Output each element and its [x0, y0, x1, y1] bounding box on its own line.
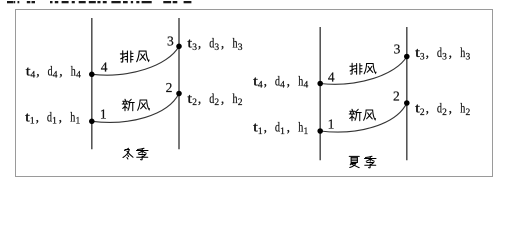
- summer: state point 4: [317, 81, 323, 87]
- svg-text:4: 4: [280, 81, 285, 91]
- svg-text:,: ,: [221, 36, 224, 51]
- svg-text:2: 2: [166, 80, 173, 95]
- svg-text:3: 3: [394, 41, 401, 56]
- svg-text:2: 2: [393, 88, 400, 103]
- svg-text:2: 2: [466, 108, 471, 118]
- svg-text:,: ,: [426, 45, 429, 60]
- svg-text:,: ,: [426, 101, 429, 116]
- svg-text:3: 3: [238, 43, 243, 53]
- svg-text:1: 1: [76, 117, 81, 127]
- svg-text:4: 4: [101, 60, 108, 75]
- summer: fresh air text 新风: [349, 109, 375, 121]
- summer: state point 1: [317, 128, 323, 134]
- svg-text:4: 4: [258, 81, 263, 91]
- svg-text:2: 2: [442, 108, 447, 118]
- svg-text:,: ,: [449, 101, 452, 116]
- svg-text:2: 2: [420, 108, 425, 118]
- svg-text:3: 3: [466, 52, 471, 62]
- winter: exhaust air text 排风: [120, 51, 149, 62]
- svg-text:3: 3: [214, 43, 219, 53]
- svg-text:,: ,: [198, 36, 201, 51]
- winter: state point 4: [89, 72, 95, 78]
- svg-text:,: ,: [59, 109, 62, 124]
- svg-text:2: 2: [238, 98, 243, 108]
- svg-text:,: ,: [36, 109, 39, 124]
- summer: state point 3: [404, 54, 410, 60]
- summer: label t2, d2, h2: [415, 101, 471, 118]
- svg-text:2: 2: [192, 98, 197, 108]
- svg-text:3: 3: [167, 33, 174, 48]
- winter: state point 1: [89, 119, 95, 125]
- svg-text:4: 4: [328, 70, 335, 85]
- summer: label t3, d3, h3: [415, 45, 471, 62]
- svg-text:1: 1: [52, 117, 57, 127]
- svg-text:,: ,: [287, 73, 290, 88]
- svg-text:2: 2: [214, 98, 219, 108]
- svg-text:,: ,: [59, 63, 62, 78]
- summer: fresh-air process curve 1->2: [320, 103, 407, 132]
- svg-text:1: 1: [258, 127, 263, 137]
- svg-text:,: ,: [221, 91, 224, 106]
- svg-text:,: ,: [264, 73, 267, 88]
- svg-text:1: 1: [304, 127, 309, 137]
- summer: exhaust air text 排风: [350, 63, 376, 74]
- svg-text:4: 4: [76, 71, 81, 81]
- winter: fresh air text 新风: [122, 99, 149, 111]
- svg-text:3: 3: [420, 52, 425, 62]
- winter: label t3, d3, h3: [187, 36, 243, 53]
- caption (cropped bottom edge of figure title text): [7, 1, 191, 3]
- winter: right state line (points 2,3): [178, 18, 180, 149]
- svg-text:,: ,: [198, 91, 201, 106]
- summer: left state line (points 1,4): [319, 27, 321, 160]
- winter: exhaust-air process curve 4->3: [92, 46, 179, 75]
- svg-text:1: 1: [328, 117, 335, 132]
- svg-text:4: 4: [53, 71, 58, 81]
- svg-text:3: 3: [192, 43, 197, 53]
- outer border box: [16, 10, 493, 177]
- svg-text:,: ,: [36, 63, 39, 78]
- summer: label t1, d1, h1: [253, 120, 309, 137]
- summer: state point 2: [404, 100, 410, 106]
- winter: label t1, d1, h1: [25, 109, 81, 126]
- svg-text:1: 1: [280, 127, 285, 137]
- winter: label t4, d4, h4: [26, 63, 82, 80]
- winter: left state line (points 1,4): [91, 18, 93, 149]
- svg-text:1: 1: [30, 117, 35, 127]
- summer season text 夏季: [349, 156, 376, 168]
- winter: fresh-air process curve 1->2: [92, 94, 179, 123]
- summer: right state line (points 2,3): [406, 27, 408, 160]
- winter: label t2, d2, h2: [187, 91, 243, 108]
- svg-text:,: ,: [287, 120, 290, 135]
- winter season text 冬季: [123, 148, 148, 160]
- svg-text:4: 4: [304, 81, 309, 91]
- svg-text:4: 4: [31, 71, 36, 81]
- svg-text:1: 1: [100, 107, 107, 122]
- summer: label t4, d4, h4: [253, 73, 309, 90]
- winter: state point 3: [176, 44, 182, 50]
- svg-text:,: ,: [264, 120, 267, 135]
- winter: state point 2: [176, 91, 182, 97]
- svg-text:,: ,: [449, 45, 452, 60]
- summer: exhaust-air process curve 4->3: [320, 57, 407, 85]
- svg-text:3: 3: [442, 52, 447, 62]
